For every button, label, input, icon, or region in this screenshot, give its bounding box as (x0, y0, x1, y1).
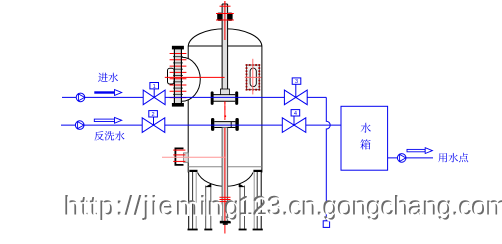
drain riser from valve 3 (326, 97, 330, 220)
svg-text:2: 2 (152, 112, 155, 118)
red vertical centerline of riser pipe (224, 1, 226, 128)
upper tee left flange (211, 91, 214, 105)
left column edge lines (173, 48, 175, 106)
drain outlet square (323, 221, 329, 228)
svg-text:1: 1 (153, 84, 156, 90)
inner left leg (205, 186, 207, 229)
flow arrow on tank outlet (407, 149, 425, 151)
lower tee right flange (235, 118, 238, 131)
riser pipe upper section (222, 4, 228, 95)
pump symbol on tank outlet (397, 154, 406, 163)
lower distributor pipe (214, 122, 235, 128)
left column top cap (172, 46, 184, 50)
vessel dome head (188, 29, 262, 46)
inner left foot (204, 229, 212, 231)
bottom pipe red flange (220, 196, 231, 198)
pink centerline of lower-left nozzle (162, 156, 226, 158)
outer right leg (253, 172, 255, 229)
red centerline of left manway (node) (165, 76, 225, 78)
watermark url text (64, 190, 502, 222)
inner right leg (239, 187, 241, 229)
inner right foot (239, 229, 247, 231)
svg-text:3: 3 (295, 79, 298, 85)
left foot (188, 229, 198, 231)
left column flange bolts (170, 53, 187, 55)
red dot above lower tee (224, 115, 226, 117)
valve V2 (backwash) (142, 118, 165, 133)
lower-left nozzle flange (175, 148, 183, 165)
label 水 (use point) (448, 153, 458, 162)
label 水 (backwash) (115, 131, 125, 140)
riser pipe lower section (222, 128, 228, 221)
pump symbol on inlet line (76, 93, 85, 102)
left flanged column body (174, 48, 181, 106)
vessel dished bottom head (198, 172, 254, 186)
valve V3 (drain) (284, 90, 307, 105)
upper distributor pipe (214, 95, 236, 102)
right foot (253, 229, 263, 231)
lower tee left flange (211, 118, 214, 131)
red cross at pipe top (220, 5, 231, 7)
valve V4 (outlet) (282, 118, 306, 133)
label 点 (use point) (459, 153, 468, 162)
inlet line (upper) (62, 96, 326, 98)
outer left leg (188, 172, 190, 229)
vessel shell left wall (187, 46, 189, 172)
vessel shell right wall (261, 46, 263, 172)
right leg cap (253, 170, 261, 172)
riser pipe top flange (217, 13, 222, 21)
lower-left nozzle bolts (173, 149, 185, 151)
right manhole inner cover (250, 68, 256, 87)
label 水 (tank) (361, 123, 371, 133)
left column bottom cap (172, 103, 184, 107)
right manhole bolt dots (246, 64, 248, 66)
pump symbol on backwash line (75, 121, 84, 130)
left leg cap (189, 170, 197, 172)
label 进 (inlet) (98, 73, 108, 82)
left manway bulge arc (182, 57, 200, 101)
label 水 (inlet) (108, 73, 118, 82)
svg-text:4: 4 (294, 111, 297, 117)
bottom pipe end cap (220, 221, 231, 224)
label 洗 (backwash) (105, 131, 115, 140)
label 反 (backwash) (94, 131, 104, 140)
svg-text:http://jieming: http://jieming (65, 192, 242, 222)
flow arrow on backwash line (94, 119, 114, 121)
right manhole outer plate (247, 65, 260, 90)
vessel bottom tangent line (gray) (188, 166, 262, 168)
vessel top tangent line (188, 45, 262, 47)
valve V1 (inlet) (143, 90, 165, 105)
lower-left nozzle body (184, 153, 189, 162)
svg-text:123.cn.gongchang.com: 123.cn.gongchang.com (239, 192, 502, 222)
label 箱 (tank) (360, 139, 370, 149)
backwash line (lower) (61, 124, 341, 126)
flow arrow on inlet line (94, 91, 114, 93)
label 用 (use point) (438, 153, 447, 162)
right manhole centerline (252, 59, 254, 95)
tank outlet line (388, 157, 433, 159)
left column handle bracket (168, 68, 175, 84)
upper tee stub centerline (224, 101, 226, 110)
tank box (341, 106, 388, 170)
upper tee right flange (235, 91, 238, 105)
